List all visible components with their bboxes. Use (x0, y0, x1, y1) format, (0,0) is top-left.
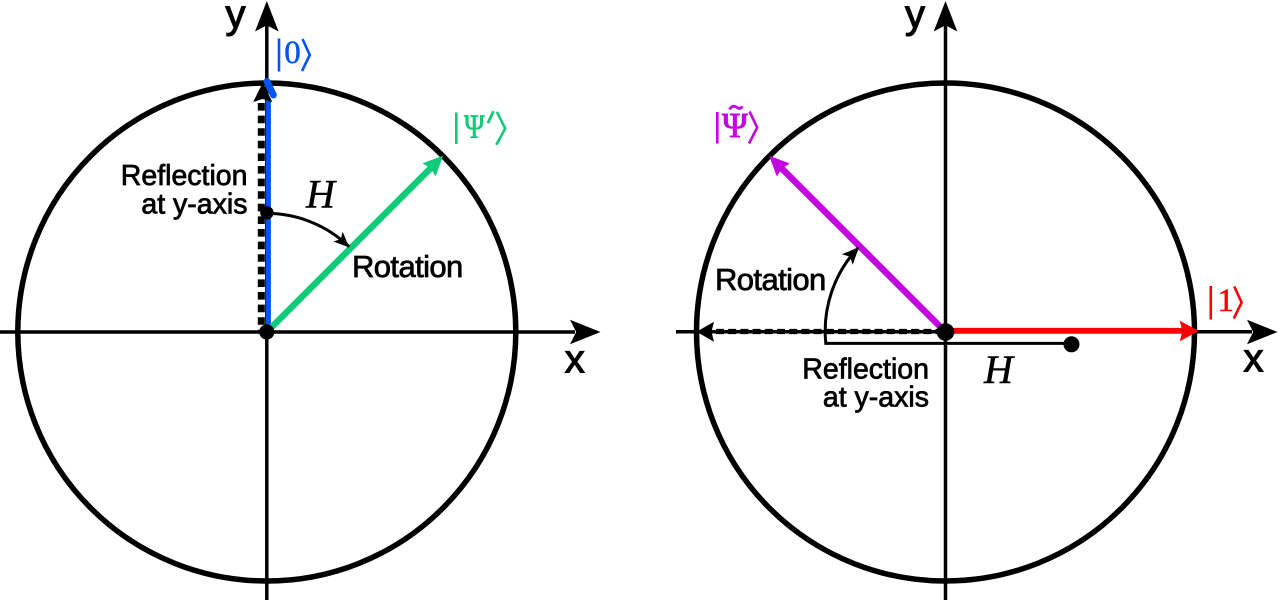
green state vector |Psi'> (left, 45 deg) (267, 156, 443, 332)
svg-text:Ψ: Ψ (722, 106, 748, 145)
svg-text:x: x (565, 338, 585, 382)
dashed reflection arrow (right, pointing left) (697, 322, 946, 342)
center dot (left origin) (259, 324, 274, 339)
rotation arc (left) (266, 213, 349, 246)
label |0> (blue ket) (279, 39, 310, 72)
y-axis (left) (255, 1, 279, 600)
unit circle (right) (697, 83, 1195, 581)
rotation arc start dot (left) (260, 206, 273, 219)
svg-text:Reflection: Reflection (121, 160, 248, 192)
svg-text:Rotation: Rotation (352, 249, 463, 284)
svg-text:H: H (305, 172, 337, 217)
svg-text:0: 0 (284, 35, 301, 71)
svg-text:x: x (1244, 337, 1264, 381)
svg-text:y: y (226, 0, 246, 37)
dashed reflection arrow (left, pointing up) (253, 83, 272, 333)
svg-text:1: 1 (1218, 283, 1235, 319)
blue state vector |0> (left, pointing up) (267, 82, 273, 333)
center dot (right origin) (937, 323, 955, 341)
label |1> (red ket) (1211, 286, 1242, 320)
x-axis (left) (0, 320, 601, 345)
svg-text:at y-axis: at y-axis (141, 188, 247, 220)
magenta state vector |Psi~> (right, 135 deg) (769, 156, 945, 332)
rotation arc arrowhead (right) (842, 247, 859, 265)
unit circle (left) (18, 83, 516, 581)
H path start dot (right) (1064, 336, 1080, 352)
red state vector |1> (right, pointing right) (946, 321, 1199, 342)
svg-text:Ψ: Ψ (464, 107, 485, 145)
svg-text:at y-axis: at y-axis (823, 381, 929, 413)
svg-text:y: y (905, 0, 925, 37)
label |Psi'> (green ket) (456, 111, 505, 145)
svg-text:Rotation: Rotation (715, 262, 826, 297)
svg-text:H: H (983, 347, 1015, 392)
H operation path: chord + rotation arc (right) (825, 248, 1069, 343)
x-axis (right) (676, 320, 1278, 345)
label |Psi~> (magenta ket) (717, 106, 757, 143)
y-axis (right) (934, 1, 958, 600)
rotation arc arrowhead (left) (333, 232, 349, 248)
